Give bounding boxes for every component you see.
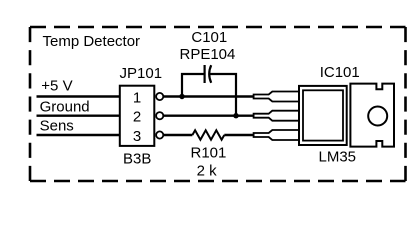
svg-text:Ground: Ground xyxy=(40,99,90,116)
svg-text:R101: R101 xyxy=(191,144,227,161)
svg-text:JP101: JP101 xyxy=(120,65,163,82)
svg-text:Sens: Sens xyxy=(40,118,74,135)
svg-text:3: 3 xyxy=(133,128,141,145)
svg-text:LM35: LM35 xyxy=(319,148,357,165)
svg-text:2: 2 xyxy=(133,109,141,126)
svg-text:+5 V: +5 V xyxy=(41,78,72,95)
svg-text:IC101: IC101 xyxy=(320,64,360,81)
svg-text:2 k: 2 k xyxy=(197,163,218,180)
svg-text:RPE104: RPE104 xyxy=(180,46,236,63)
svg-text:Temp Detector: Temp Detector xyxy=(43,33,141,50)
svg-text:B3B: B3B xyxy=(123,150,151,167)
svg-text:C101: C101 xyxy=(191,29,227,46)
svg-text:1: 1 xyxy=(133,89,141,106)
